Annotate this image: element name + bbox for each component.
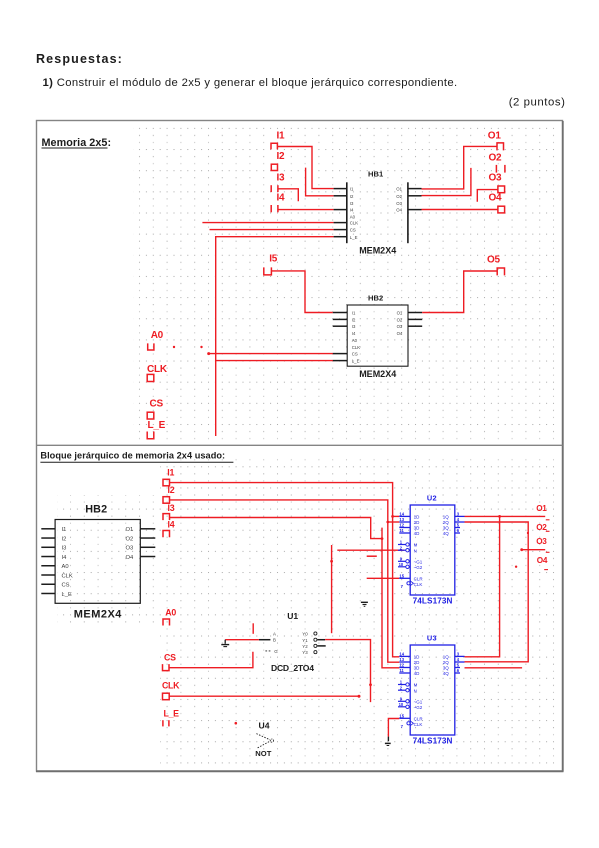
svg-text:2D: 2D	[414, 520, 421, 525]
svg-text:I2: I2	[62, 536, 67, 542]
svg-text:HB1: HB1	[368, 169, 384, 178]
section title Bloque jerarquico	[40, 450, 233, 462]
node dots of A0 net	[173, 346, 203, 348]
stray node dot near O4	[515, 566, 517, 568]
svg-text:CLK: CLK	[62, 573, 73, 579]
wire U2 2Q / U3 2Q to O2 net	[465, 522, 530, 662]
svg-text:3Q: 3Q	[443, 526, 450, 531]
svg-text:14: 14	[399, 651, 404, 656]
svg-text:2Q: 2Q	[443, 660, 450, 665]
wire to U1 pin B	[225, 639, 259, 641]
section divider	[36, 444, 563, 446]
svg-text:14: 14	[399, 511, 404, 516]
svg-text:15: 15	[399, 713, 404, 718]
wire stub near U2 4D	[367, 555, 377, 557]
connector CLK (lower)	[162, 681, 180, 700]
svg-text:B: B	[273, 638, 276, 643]
wire HB1 O1 to connector O1	[422, 146, 498, 189]
svg-text:U2: U2	[427, 494, 437, 503]
svg-text:HB2: HB2	[85, 503, 107, 515]
svg-text:13: 13	[399, 517, 404, 522]
svg-text:2D: 2D	[414, 660, 421, 665]
stray node dot near L_E	[235, 722, 238, 725]
svg-text:A0: A0	[62, 564, 69, 570]
connector O3	[489, 172, 505, 192]
svg-text:3Q: 3Q	[443, 666, 450, 671]
svg-text:CS: CS	[164, 652, 176, 662]
wire CS to U1 pin G	[169, 652, 253, 668]
connector I3	[271, 173, 285, 193]
svg-text:I1: I1	[167, 467, 174, 477]
wire U1 Y0 riser to U2 select	[330, 545, 333, 633]
wire I4 to HB1	[278, 209, 334, 211]
ground at U1 pin B	[221, 640, 229, 647]
svg-text:HB2: HB2	[368, 293, 383, 302]
svg-text:~G1: ~G1	[414, 700, 423, 705]
svg-text:I1: I1	[352, 311, 356, 316]
connector O1 (lower)	[536, 504, 549, 520]
svg-text:2Q: 2Q	[443, 520, 450, 525]
connector I3 (lower)	[163, 503, 175, 520]
svg-text:CLR: CLR	[414, 577, 424, 582]
svg-text:O2: O2	[396, 194, 402, 199]
svg-text:Bloque jerárquico de memoria 2: Bloque jerárquico de memoria 2x4 usado:	[40, 450, 225, 460]
svg-text:M: M	[414, 683, 418, 688]
wire A0 stub above U1 pin A	[252, 623, 254, 634]
svg-text:M: M	[414, 543, 418, 548]
svg-text:CS: CS	[350, 228, 356, 233]
svg-text:1D: 1D	[414, 515, 421, 520]
svg-text:I3: I3	[62, 546, 67, 552]
connector O4	[489, 193, 505, 213]
svg-text:Y1: Y1	[302, 638, 308, 643]
svg-text:I4: I4	[352, 331, 356, 336]
svg-text:1D: 1D	[414, 655, 421, 660]
svg-text:A: A	[273, 631, 276, 636]
svg-text:MEM2X4: MEM2X4	[359, 246, 396, 256]
hierarchical block HB2 MEM2X4 (upper)	[333, 293, 422, 379]
svg-text:CLR: CLR	[414, 717, 424, 722]
wire to U2 pin CLR	[367, 577, 400, 579]
hierarchical block HB1 MEM2X4	[334, 169, 422, 255]
svg-text:I2: I2	[350, 194, 354, 199]
IC U2 74LS173N	[398, 494, 465, 606]
svg-text:O2: O2	[536, 523, 547, 532]
wire CS net to HB2 with junction	[207, 352, 333, 355]
svg-text:O3: O3	[396, 201, 402, 206]
connector O1	[488, 131, 504, 151]
svg-text:I1: I1	[277, 131, 286, 142]
svg-text:O3: O3	[536, 537, 547, 546]
svg-text:CLK: CLK	[162, 681, 180, 691]
svg-text:N: N	[414, 548, 417, 553]
svg-text:Respuestas:: Respuestas:	[36, 52, 123, 66]
svg-text:L_E: L_E	[352, 359, 360, 364]
svg-text:I3: I3	[277, 173, 286, 184]
svg-text:Y0: Y0	[302, 632, 308, 637]
connector O2 (lower)	[536, 523, 549, 532]
svg-text:L_E: L_E	[164, 708, 180, 718]
svg-text:O1: O1	[126, 527, 134, 533]
wire I1 to HB1	[277, 147, 333, 189]
hierarchical block HB2 MEM2X4 (lower left)	[41, 503, 155, 620]
connector I2	[271, 151, 285, 171]
section title Memoria 2x5	[42, 137, 112, 149]
O3 net fragment with junction	[520, 548, 545, 551]
wire I3 feeder	[170, 518, 383, 539]
svg-text:~G2: ~G2	[414, 705, 423, 710]
wire I3 to U3 3D with junction	[381, 528, 400, 668]
svg-text:O1: O1	[397, 311, 403, 316]
svg-text:G: G	[274, 649, 278, 654]
svg-text:Memoria 2x5:: Memoria 2x5:	[42, 137, 112, 149]
svg-text:U1: U1	[287, 611, 298, 621]
connector I2 (lower)	[163, 485, 175, 503]
svg-text:CLK: CLK	[147, 364, 168, 375]
svg-text:4Q: 4Q	[443, 531, 450, 536]
svg-text:O4: O4	[537, 556, 548, 565]
svg-text:(2 puntos): (2 puntos)	[509, 96, 566, 108]
svg-text:L_E: L_E	[350, 235, 358, 240]
svg-text:L_E: L_E	[148, 420, 166, 431]
svg-text:O5: O5	[487, 254, 501, 265]
svg-text:11: 11	[399, 528, 404, 533]
svg-text:CS: CS	[150, 399, 164, 410]
svg-text:O1: O1	[536, 504, 547, 513]
svg-text:O3: O3	[126, 546, 134, 552]
wire I5 to HB2	[271, 271, 332, 313]
connector I4	[271, 193, 285, 213]
svg-text:I3: I3	[168, 503, 175, 513]
svg-text:I2: I2	[352, 317, 356, 322]
svg-text:4D: 4D	[414, 531, 421, 536]
svg-text:CLK: CLK	[352, 345, 360, 350]
wire I2 to U2/U3 2D	[170, 500, 400, 662]
svg-text:O2: O2	[489, 153, 503, 164]
svg-text:L_E: L_E	[62, 592, 72, 598]
svg-text:3D: 3D	[414, 526, 421, 531]
svg-text:CLK: CLK	[414, 722, 423, 727]
svg-text:I4: I4	[350, 208, 354, 213]
connector A0 (lower)	[163, 607, 176, 625]
svg-text:Y2: Y2	[302, 644, 308, 649]
svg-text:DCD_2TO4: DCD_2TO4	[271, 663, 314, 673]
svg-text:I1: I1	[350, 187, 354, 192]
svg-text:O1: O1	[488, 131, 502, 142]
svg-text:CLK: CLK	[350, 221, 358, 226]
svg-text:A0: A0	[352, 338, 358, 343]
connector L_E (upper)	[147, 420, 165, 439]
svg-text:12: 12	[399, 523, 404, 528]
ground (middle, below U2)	[361, 602, 368, 606]
connector CLK (upper)	[147, 364, 168, 382]
svg-text:11: 11	[399, 668, 404, 673]
connector O4 (lower)	[537, 556, 548, 570]
decoder U1 DCD_2TO4	[259, 611, 326, 673]
svg-text:3D: 3D	[414, 666, 421, 671]
svg-text:1Q: 1Q	[443, 655, 450, 660]
svg-text:I4: I4	[62, 555, 68, 561]
svg-text:10: 10	[399, 562, 404, 567]
connector CS (upper)	[147, 399, 163, 420]
svg-text:U3: U3	[427, 634, 437, 643]
connector I1	[271, 131, 285, 150]
svg-text:O2: O2	[126, 536, 134, 542]
wire U1 Y1 to U3 select pins	[325, 640, 372, 703]
connector L_E (lower)	[163, 708, 179, 726]
connector I5	[264, 253, 278, 275]
svg-text:~G1: ~G1	[414, 560, 423, 565]
connector CS (lower)	[163, 652, 177, 670]
svg-text:74LS173N: 74LS173N	[413, 596, 453, 605]
wire I3 stub	[278, 189, 298, 201]
svg-text:I2: I2	[168, 485, 175, 495]
svg-text:NOT: NOT	[255, 749, 271, 758]
svg-text:I4: I4	[277, 193, 286, 204]
svg-text:CS: CS	[352, 352, 358, 357]
svg-text:O4: O4	[396, 208, 402, 213]
svg-text:O2: O2	[397, 317, 403, 322]
svg-text:74LS173N: 74LS173N	[413, 736, 453, 745]
wire I2 net to HB1	[306, 168, 334, 196]
svg-text:Y3: Y3	[302, 650, 308, 655]
wire CLK net with end junction	[169, 695, 360, 698]
svg-text:I3: I3	[350, 201, 354, 206]
wire CLK net to HB1	[202, 222, 333, 224]
svg-text:1Q: 1Q	[443, 515, 450, 520]
svg-text:10: 10	[399, 702, 404, 707]
wire HB1 O4 to connector O4	[422, 209, 498, 211]
svg-text:MEM2X4: MEM2X4	[74, 609, 123, 621]
svg-text:~G2: ~G2	[414, 565, 423, 570]
connector A0 (upper)	[148, 330, 164, 350]
svg-text:13: 13	[399, 657, 404, 662]
svg-text:O4: O4	[126, 555, 135, 561]
wire U2 1Q / U3 1Q to O1 net	[465, 515, 546, 657]
wire O3 stub	[477, 190, 498, 202]
svg-text:O1: O1	[396, 187, 402, 192]
svg-text:4Q: 4Q	[443, 671, 450, 676]
svg-text:I3: I3	[352, 324, 356, 329]
svg-text:I1: I1	[62, 527, 67, 533]
svg-text:CS: CS	[62, 583, 70, 589]
wire to U2 pin N	[337, 549, 404, 551]
wire CS net to HB1	[210, 229, 334, 231]
svg-text:1) Construir el módulo de 2x5: 1) Construir el módulo de 2x5 y generar …	[43, 77, 458, 89]
connector I1 (lower)	[163, 467, 175, 485]
wire L_E net to HB1 and down	[216, 237, 334, 436]
connector O2	[489, 153, 505, 173]
wire I1 to U2/U3 1D	[170, 483, 400, 657]
wire U3 CLR with ground	[385, 719, 399, 746]
svg-text:O4: O4	[397, 331, 403, 336]
connector I4 (lower)	[163, 520, 175, 538]
svg-text:O3: O3	[489, 172, 503, 183]
svg-text:15: 15	[399, 573, 404, 578]
svg-text:A0: A0	[350, 215, 356, 220]
svg-text:O3: O3	[397, 324, 403, 329]
wire U3 3Q stub	[465, 667, 523, 669]
svg-text:MEM2X4: MEM2X4	[359, 369, 396, 379]
wire HB2 O1 to connector O5	[422, 271, 497, 313]
svg-text:I5: I5	[269, 253, 278, 264]
connector O3 (lower)	[536, 537, 549, 552]
svg-text:O4: O4	[489, 193, 503, 204]
svg-text:I4: I4	[168, 520, 175, 530]
NOT gate U4	[255, 721, 273, 758]
svg-text:4D: 4D	[414, 671, 421, 676]
IC U3 74LS173N	[398, 634, 465, 746]
svg-text:CLK: CLK	[414, 582, 423, 587]
svg-text:A0: A0	[165, 607, 176, 617]
svg-text:A0: A0	[151, 330, 164, 341]
wire O2 net to HB1	[422, 168, 471, 196]
svg-text:12: 12	[399, 663, 404, 668]
svg-text:U4: U4	[259, 721, 270, 731]
connector O5	[487, 254, 505, 275]
svg-text:I2: I2	[277, 151, 286, 162]
svg-text:N: N	[414, 688, 417, 693]
wire L_E net to HB2	[216, 360, 333, 362]
